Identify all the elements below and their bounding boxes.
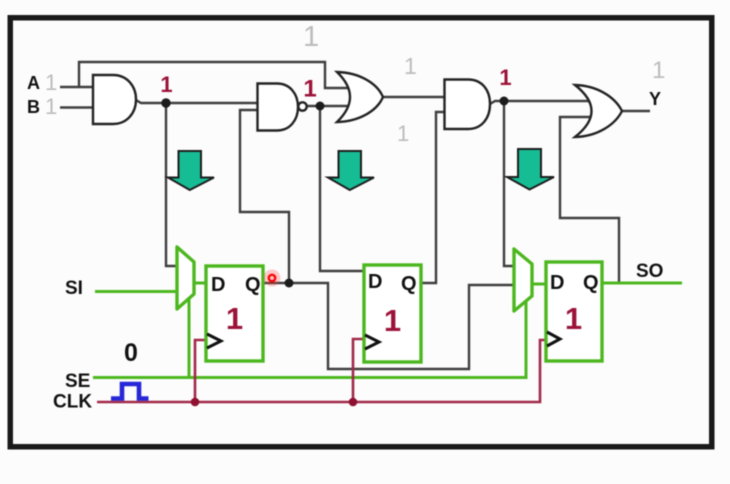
svg-text:Y: Y [649,89,661,109]
svg-text:1: 1 [499,65,511,90]
svg-text:B: B [27,97,40,117]
svg-text:1: 1 [404,53,417,79]
svg-text:Q: Q [245,274,261,296]
svg-text:Q: Q [401,273,417,295]
svg-text:Q: Q [583,272,599,294]
svg-text:1: 1 [160,72,172,97]
svg-text:D: D [211,274,225,296]
svg-text:1: 1 [565,301,582,336]
svg-text:1: 1 [226,301,243,336]
svg-text:1: 1 [397,121,409,146]
svg-text:1: 1 [652,57,665,84]
svg-text:SE: SE [65,371,90,392]
svg-text:1: 1 [303,21,319,53]
svg-text:1: 1 [384,303,401,338]
svg-text:A: A [27,73,40,93]
svg-text:D: D [550,272,564,294]
svg-text:D: D [368,271,382,293]
svg-text:CLK: CLK [53,392,92,413]
svg-text:1: 1 [45,70,57,95]
svg-text:0: 0 [124,339,138,367]
svg-text:1: 1 [303,76,316,103]
svg-text:SI: SI [65,278,83,299]
svg-text:SO: SO [636,261,663,282]
svg-text:1: 1 [45,94,57,119]
